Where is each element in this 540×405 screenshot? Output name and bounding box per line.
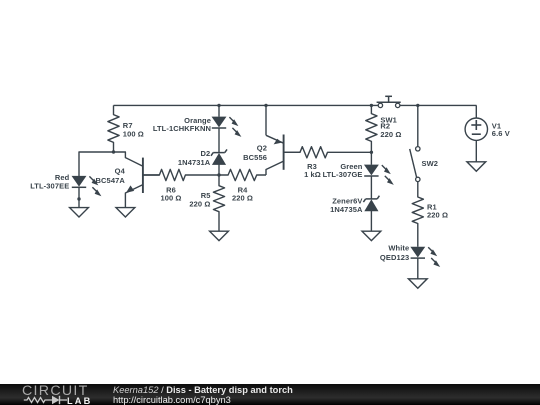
footer url bbox=[113, 395, 231, 405]
ground V1 bbox=[467, 162, 486, 171]
light arrows Orange LED bbox=[229, 117, 235, 123]
ground White LED bbox=[408, 279, 427, 288]
ground R5 bbox=[210, 231, 229, 240]
resistor R7 bbox=[108, 105, 119, 152]
wire D2 to Orange LED bbox=[218, 128, 220, 152]
node Orange branch on rail bbox=[217, 104, 220, 107]
wire top supply rail left segment bbox=[114, 104, 379, 106]
svg-text:Q4: Q4 bbox=[115, 167, 126, 176]
wire rail to SW2 bbox=[417, 105, 419, 146]
node Red LED cathode dot bbox=[77, 197, 80, 200]
diode D2 1N4731A zener bbox=[213, 152, 225, 154]
svg-text:R7: R7 bbox=[123, 121, 133, 130]
node R2 top on rail bbox=[370, 104, 373, 107]
svg-text:White: White bbox=[388, 244, 409, 253]
resistor R4 bbox=[219, 169, 266, 180]
svg-text:BC556: BC556 bbox=[243, 153, 267, 162]
node center junction bbox=[217, 173, 220, 176]
diode Zener6V 1N4735A bbox=[366, 198, 378, 200]
node junction below R7 bbox=[112, 150, 115, 153]
svg-text:220 Ω: 220 Ω bbox=[427, 211, 448, 220]
svg-text:Zener6V: Zener6V bbox=[332, 196, 362, 205]
wire Q4 collector bbox=[114, 152, 143, 166]
LED White QED123 bbox=[411, 247, 424, 256]
svg-text:D2: D2 bbox=[201, 149, 211, 158]
ground Zener branch bbox=[362, 231, 381, 240]
svg-text:Q2: Q2 bbox=[257, 144, 267, 153]
CircuitLab logo squiggle bbox=[0, 384, 110, 405]
CircuitLab logo LAB bbox=[67, 396, 92, 405]
svg-text:LTL-307EE: LTL-307EE bbox=[30, 181, 69, 190]
node SW2 top on rail bbox=[416, 104, 419, 107]
svg-text:1N4735A: 1N4735A bbox=[330, 205, 363, 214]
light arrows Green LED bbox=[382, 165, 388, 171]
svg-text:6.6 V: 6.6 V bbox=[492, 129, 510, 138]
ground Red LED bbox=[70, 208, 89, 217]
voltage source V1 bbox=[465, 118, 487, 140]
svg-text:220 Ω: 220 Ω bbox=[380, 130, 401, 139]
LED Orange LTL-1CHKFKNN bbox=[213, 117, 226, 126]
resistor R1 bbox=[412, 182, 423, 247]
svg-text:220 Ω: 220 Ω bbox=[232, 194, 253, 203]
svg-text:LTL-307GE: LTL-307GE bbox=[323, 170, 363, 179]
wire R7 bottom to Red LED bbox=[79, 152, 114, 176]
node R2 bottom junction bbox=[370, 151, 373, 154]
ground Q4 emitter bbox=[116, 208, 135, 217]
wire Orange LED to rail bbox=[218, 105, 220, 116]
switch SW1 pushbutton bbox=[377, 101, 401, 103]
resistor R3 bbox=[284, 147, 372, 158]
switch SW2 bbox=[416, 147, 420, 151]
svg-text:BC547A: BC547A bbox=[96, 176, 126, 185]
svg-text:100 Ω: 100 Ω bbox=[123, 130, 144, 139]
wire Red LED cathode to ground bbox=[78, 187, 80, 207]
svg-text:1 kΩ: 1 kΩ bbox=[304, 170, 321, 179]
wire Zener to ground bbox=[370, 211, 372, 232]
svg-text:QED123: QED123 bbox=[380, 253, 409, 262]
svg-text:1N4731A: 1N4731A bbox=[178, 158, 211, 167]
wire Q2 emitter from rail bbox=[265, 105, 267, 135]
CircuitLab logo CIRCUIT bbox=[22, 383, 89, 399]
LED Red LTL-307EE bbox=[73, 176, 86, 185]
footer bar bbox=[0, 384, 540, 405]
LED Green LTL-307GE bbox=[365, 165, 378, 174]
light arrows White LED bbox=[428, 247, 434, 253]
footer title text bbox=[113, 385, 293, 395]
resistor R2 bbox=[366, 105, 377, 152]
wire junction up to D2 bbox=[218, 164, 220, 175]
wire White LED to ground bbox=[417, 258, 419, 279]
transistor Q4 BC547A bbox=[142, 158, 144, 193]
svg-text:220 Ω: 220 Ω bbox=[189, 199, 210, 208]
wire Q2 collector bbox=[266, 161, 284, 175]
wire top supply rail right segment bbox=[400, 104, 477, 106]
resistor R5 bbox=[213, 175, 224, 231]
resistor R6 bbox=[143, 169, 219, 180]
wire junction to Green LED bbox=[370, 152, 372, 164]
svg-text:R2: R2 bbox=[380, 121, 390, 130]
node Q2 emitter on rail bbox=[264, 104, 267, 107]
svg-text:LTL-1CHKFKNN: LTL-1CHKFKNN bbox=[153, 124, 211, 133]
wire V1 to ground bbox=[475, 140, 477, 161]
svg-text:SW2: SW2 bbox=[422, 159, 439, 168]
wire Green LED to Zener bbox=[370, 176, 372, 199]
light arrows Red LED bbox=[89, 176, 95, 182]
transistor Q2 BC556 bbox=[283, 135, 285, 170]
wire rail to V1 bbox=[475, 105, 477, 118]
svg-text:100 Ω: 100 Ω bbox=[160, 194, 181, 203]
